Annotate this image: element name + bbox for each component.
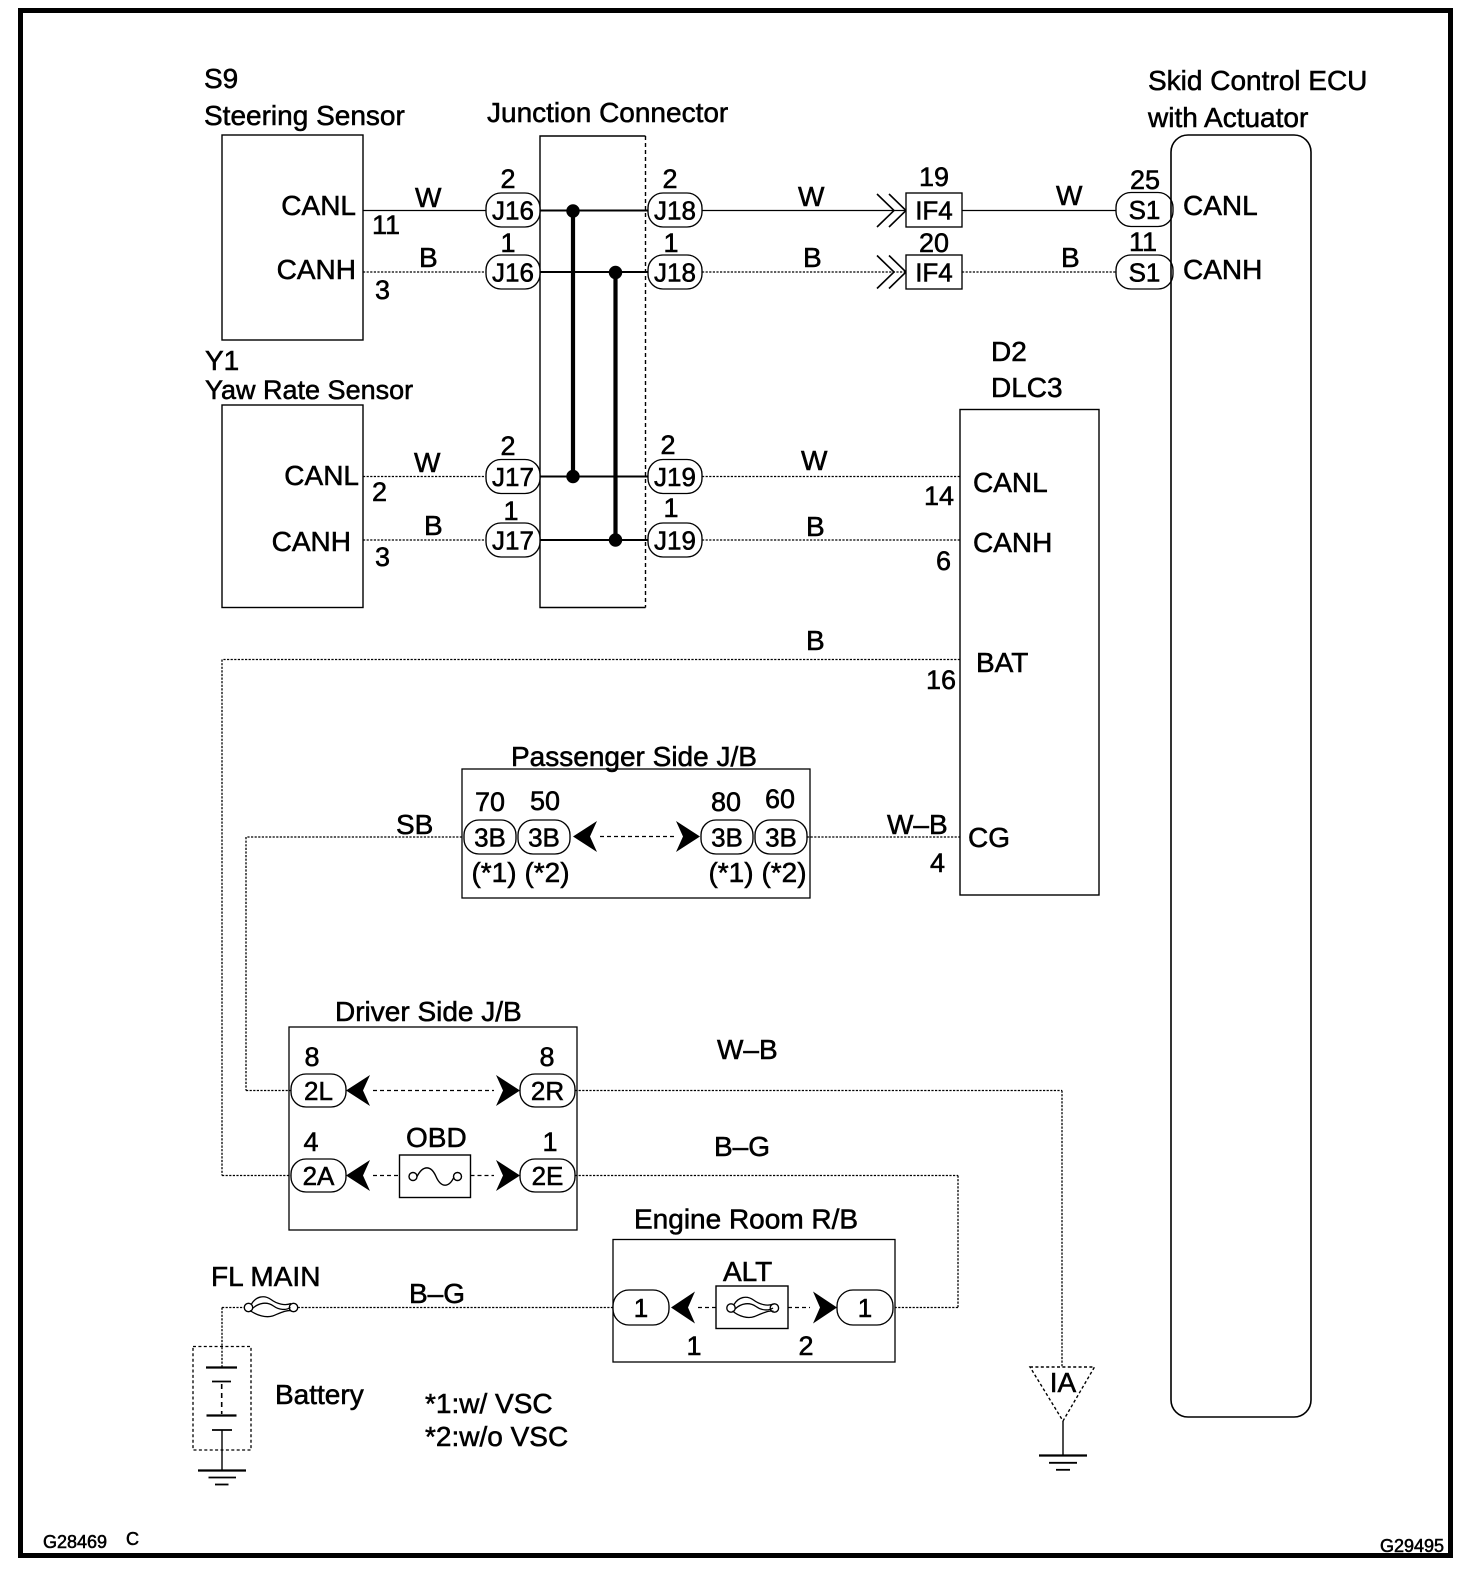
svg-text:J18: J18: [654, 258, 696, 288]
svg-text:25: 25: [1130, 165, 1160, 195]
arrow left passenger J/B: [573, 821, 597, 852]
svg-text:14: 14: [924, 481, 954, 511]
svg-text:IF4: IF4: [915, 196, 953, 226]
figure code right G29495: [1380, 1536, 1444, 1556]
svg-text:G28469: G28469: [43, 1532, 107, 1552]
wire row1 inside junction connector: [540, 210, 648, 212]
note VSC variants: [425, 1388, 568, 1452]
DLC3 box D2: [924, 336, 1099, 895]
svg-text:J19: J19: [654, 526, 696, 556]
svg-text:2: 2: [372, 477, 387, 507]
wire stub OBD to right arrow: [471, 1175, 495, 1177]
svg-text:IF4: IF4: [915, 258, 953, 288]
svg-text:4: 4: [930, 848, 945, 878]
svg-text:S9: S9: [204, 63, 238, 94]
svg-text:60: 60: [765, 784, 795, 814]
connector 2E pin 1: [520, 1127, 575, 1192]
svg-text:*1:w/ VSC: *1:w/ VSC: [425, 1388, 553, 1419]
svg-text:70: 70: [475, 787, 505, 817]
arrow left driver row2: [346, 1160, 370, 1191]
svg-text:Engine Room R/B: Engine Room R/B: [634, 1204, 858, 1235]
svg-text:11: 11: [1129, 227, 1157, 257]
wire W from J18 to IF4: [702, 181, 906, 212]
connector IF4 pin 20: [906, 228, 962, 289]
wire stub 2A arrow to OBD: [373, 1175, 400, 1177]
driver side J/B box: [289, 996, 577, 1230]
svg-text:Junction Connector: Junction Connector: [487, 97, 728, 128]
wire B-G from FL MAIN to engine room R/B: [298, 1278, 613, 1309]
svg-text:1: 1: [663, 228, 678, 258]
arrow right passenger J/B: [676, 821, 700, 852]
svg-text:with Actuator: with Actuator: [1147, 102, 1308, 133]
connector 3B pin 70: [464, 787, 517, 888]
svg-text:FL MAIN: FL MAIN: [211, 1261, 320, 1292]
svg-text:B: B: [803, 242, 822, 273]
svg-text:2E: 2E: [532, 1161, 564, 1191]
bus wire vertical 1: [571, 211, 575, 477]
svg-text:CG: CG: [968, 822, 1010, 853]
figure code left G28469: [43, 1532, 107, 1552]
connector J19 pin 1: [648, 493, 702, 557]
arrow right driver row1: [496, 1075, 520, 1106]
svg-text:(*1): (*1): [708, 857, 753, 888]
svg-text:B–G: B–G: [714, 1131, 770, 1162]
svg-text:OBD: OBD: [406, 1122, 467, 1153]
svg-text:B: B: [806, 511, 825, 542]
svg-text:8: 8: [539, 1042, 554, 1072]
connector J18 pin 1: [648, 228, 702, 289]
svg-text:W: W: [415, 182, 442, 213]
wire W from Y1 CANL to J17: [363, 447, 486, 478]
svg-text:CANH: CANH: [1183, 254, 1262, 285]
svg-text:(*1): (*1): [471, 857, 516, 888]
wire B from J18 to IF4: [702, 242, 906, 273]
svg-text:1: 1: [542, 1127, 557, 1157]
wire B from DLC3 BAT to 2A: [222, 625, 960, 1176]
svg-text:Steering Sensor: Steering Sensor: [204, 100, 405, 131]
wire row3 inside junction connector: [540, 476, 648, 478]
svg-text:W: W: [414, 447, 441, 478]
engine room R/B box: [613, 1204, 895, 1363]
svg-text:2: 2: [500, 431, 515, 461]
svg-text:W: W: [801, 445, 828, 476]
figure revision C: [126, 1529, 139, 1549]
svg-text:J16: J16: [492, 258, 534, 288]
wire row2 inside junction connector: [540, 271, 648, 273]
wire B-G from 2E to engine room R/B: [575, 1131, 958, 1308]
svg-text:Yaw Rate Sensor: Yaw Rate Sensor: [205, 375, 413, 405]
svg-text:J18: J18: [654, 196, 696, 226]
svg-text:20: 20: [919, 228, 949, 258]
svg-text:W–B: W–B: [887, 809, 948, 840]
junction node row2: [609, 266, 622, 279]
svg-text:Passenger Side J/B: Passenger Side J/B: [511, 741, 757, 772]
wire stub ALT to right arrow: [788, 1307, 810, 1309]
connector J17 pin 2: [486, 431, 540, 494]
connector 3B pin 60: [755, 784, 807, 888]
svg-text:J17: J17: [492, 462, 534, 492]
connector J16 pin 1: [486, 228, 540, 289]
svg-text:3B: 3B: [765, 823, 797, 853]
svg-text:CANL: CANL: [281, 190, 356, 221]
svg-text:16: 16: [926, 665, 956, 695]
wire row4 inside junction connector: [540, 539, 648, 541]
svg-text:Driver Side J/B: Driver Side J/B: [335, 996, 522, 1027]
incoming marker chevrons row2: [877, 256, 906, 289]
svg-text:3: 3: [375, 542, 390, 572]
svg-text:3B: 3B: [528, 823, 560, 853]
wire W-B from 2R to ground IA: [575, 1034, 1062, 1367]
svg-text:SB: SB: [396, 809, 433, 840]
svg-text:CANL: CANL: [284, 460, 359, 491]
connector IF4 pin 19: [906, 162, 962, 227]
connector J18 pin 2: [648, 164, 702, 227]
passenger side J/B box: [462, 741, 810, 898]
svg-text:4: 4: [303, 1127, 318, 1157]
svg-text:8: 8: [304, 1042, 319, 1072]
svg-text:2R: 2R: [531, 1076, 564, 1106]
wire W from J19 to DLC3 CANL: [702, 445, 960, 477]
svg-text:ALT: ALT: [723, 1256, 772, 1287]
svg-text:50: 50: [530, 786, 560, 816]
svg-text:Skid Control ECU: Skid Control ECU: [1148, 65, 1367, 96]
connector 2L pin 8: [291, 1042, 346, 1107]
svg-text:G29495: G29495: [1380, 1536, 1444, 1556]
svg-text:2: 2: [798, 1331, 813, 1361]
junction connector box: [487, 97, 728, 608]
connector 1 left engine room: [613, 1290, 669, 1325]
arrow right engine room pin 2: [798, 1292, 837, 1362]
junction node row4: [609, 533, 622, 546]
connector 3B pin 80: [701, 787, 754, 888]
wire B from IF4 to S1: [962, 242, 1116, 273]
battery: [193, 1308, 364, 1471]
wire B from S9 CANH to J16: [363, 242, 486, 273]
svg-text:W: W: [1056, 180, 1083, 211]
svg-text:11: 11: [372, 210, 400, 240]
svg-text:DLC3: DLC3: [991, 372, 1063, 403]
wire SB from passenger J/B to 2L: [246, 809, 462, 1091]
svg-text:1: 1: [503, 496, 518, 526]
fuse OBD: [400, 1122, 471, 1198]
svg-text:80: 80: [711, 787, 741, 817]
svg-text:IA: IA: [1050, 1367, 1077, 1398]
svg-text:CANH: CANH: [272, 526, 351, 557]
steering sensor S9 box: [204, 63, 405, 340]
connector 2A pin 4: [291, 1127, 346, 1192]
svg-text:B: B: [806, 625, 825, 656]
svg-text:2A: 2A: [303, 1161, 335, 1191]
connector 3B pin 50: [518, 786, 570, 888]
svg-text:3B: 3B: [474, 823, 506, 853]
wire B from J19 to DLC3 CANH: [702, 511, 960, 542]
svg-text:D2: D2: [991, 336, 1027, 367]
ground IA triangle: [1030, 1367, 1095, 1456]
arrow left engine room pin 1: [671, 1292, 702, 1362]
svg-text:2: 2: [500, 164, 515, 194]
svg-text:2: 2: [662, 164, 677, 194]
svg-text:(*2): (*2): [524, 857, 569, 888]
svg-text:C: C: [126, 1529, 139, 1549]
svg-text:J16: J16: [492, 196, 534, 226]
ground battery: [198, 1471, 246, 1485]
svg-text:J19: J19: [654, 462, 696, 492]
svg-text:S1: S1: [1129, 195, 1161, 225]
svg-text:(*2): (*2): [761, 857, 806, 888]
svg-text:CANL: CANL: [1183, 190, 1258, 221]
svg-text:B: B: [1061, 242, 1080, 273]
wire stub arrow to ALT: [698, 1307, 716, 1309]
svg-text:1: 1: [500, 228, 515, 258]
svg-text:S1: S1: [1129, 258, 1161, 288]
svg-text:W: W: [798, 181, 825, 212]
svg-text:2L: 2L: [304, 1076, 333, 1106]
connector S1 pin 11: [1116, 227, 1173, 289]
dashed link wire driver row1: [373, 1090, 494, 1092]
svg-text:W–B: W–B: [717, 1034, 778, 1065]
svg-text:3B: 3B: [711, 823, 743, 853]
bus wire vertical 2: [613, 272, 617, 540]
connector 1 right engine room: [837, 1290, 893, 1325]
svg-text:CANH: CANH: [277, 254, 356, 285]
fusible link FL MAIN: [211, 1261, 320, 1317]
svg-text:6: 6: [936, 546, 951, 576]
yaw rate sensor Y1 box: [205, 345, 413, 608]
svg-text:1: 1: [663, 493, 678, 523]
wire B from Y1 CANH to J17: [363, 510, 486, 541]
svg-text:1: 1: [686, 1331, 701, 1361]
connector J16 pin 2: [486, 164, 540, 227]
svg-text:19: 19: [919, 162, 949, 192]
dashed link wire passenger J/B: [600, 836, 674, 838]
connector J19 pin 2: [648, 430, 702, 494]
wire W from S9 CANL to J16: [363, 182, 486, 213]
connector 2R pin 8: [520, 1042, 575, 1107]
svg-text:3: 3: [375, 275, 390, 305]
arrow left driver row1: [346, 1075, 370, 1106]
connector S1 pin 25: [1116, 165, 1173, 227]
svg-text:J17: J17: [492, 526, 534, 556]
svg-text:CANL: CANL: [973, 467, 1048, 498]
ground IA bars: [1039, 1456, 1087, 1470]
svg-text:CANH: CANH: [973, 527, 1052, 558]
wire W from IF4 to S1: [962, 180, 1116, 211]
connector J17 pin 1: [486, 496, 540, 557]
svg-text:1: 1: [858, 1293, 872, 1323]
svg-text:B: B: [419, 242, 438, 273]
svg-text:*2:w/o VSC: *2:w/o VSC: [425, 1421, 568, 1452]
junction node row1: [566, 204, 579, 217]
svg-text:B–G: B–G: [409, 1278, 465, 1309]
svg-text:B: B: [424, 510, 443, 541]
svg-text:1: 1: [634, 1293, 648, 1323]
wire W-B from 3B to DLC3 CG: [807, 809, 960, 840]
svg-text:2: 2: [660, 430, 675, 460]
skid control ECU box: [1147, 65, 1367, 1417]
svg-text:Battery: Battery: [275, 1379, 364, 1410]
fuse ALT: [716, 1256, 788, 1329]
junction node row3: [566, 470, 579, 483]
svg-text:BAT: BAT: [976, 647, 1028, 678]
svg-text:Y1: Y1: [205, 345, 239, 376]
arrow right driver row2: [496, 1160, 520, 1191]
incoming marker chevrons row1: [877, 194, 906, 227]
